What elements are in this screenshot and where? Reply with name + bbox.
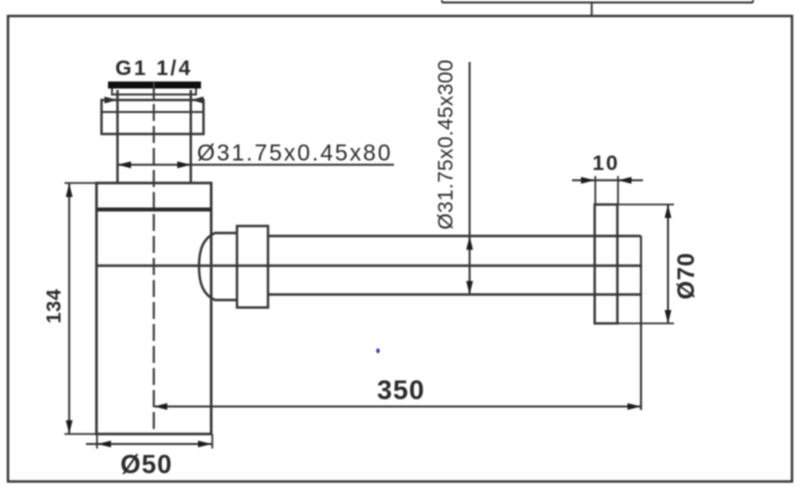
body height ext line bottom [65, 433, 98, 435]
dim 70 bottom arrow [665, 310, 672, 323]
dimension line 134 [68, 184, 70, 434]
svg-text:Ø50: Ø50 [120, 449, 172, 479]
inlet pipe left wall [116, 90, 118, 183]
title block bottom line [442, 2, 753, 4]
svg-text:Ø31.75x0.45x80: Ø31.75x0.45x80 [197, 140, 392, 166]
dim 10 left arrow [581, 177, 595, 184]
pipe dia dimension line vertical [469, 62, 471, 295]
inlet cap thick black bar [108, 82, 201, 89]
title block left divider [441, 0, 443, 3]
dim 350 left arrow [154, 403, 168, 410]
outlet pipe top line [268, 235, 641, 238]
washer line under cap [111, 93, 197, 95]
compression nut mid line [102, 111, 204, 113]
thread dim left arrow [105, 97, 118, 104]
outlet elbow cup [199, 233, 237, 300]
vertical centerline [153, 82, 155, 434]
flange thickness ext line left [594, 176, 596, 205]
dim 350 right arrow [628, 403, 642, 410]
body dia ext line left [96, 434, 98, 449]
inlet pipe right wall [190, 90, 192, 183]
body dia ext line right [211, 434, 213, 449]
body joint thick line [97, 208, 213, 212]
inlet dim left arrow [118, 161, 132, 168]
inlet pipe diameter dimension line [118, 164, 395, 166]
outlet nut [237, 226, 268, 308]
thread dim right arrow [191, 97, 204, 104]
svg-text:134: 134 [44, 288, 66, 323]
svg-text:G1 1/4: G1 1/4 [115, 57, 192, 80]
outlet pipe end cap and 350 extension line [640, 236, 642, 410]
dimension line 10 [572, 179, 643, 181]
inlet dim right arrow [177, 161, 191, 168]
dim 50 right arrow [198, 441, 212, 448]
wall flange outline [595, 205, 618, 324]
dim 50 left arrow [98, 441, 112, 448]
svg-text:10: 10 [592, 152, 619, 175]
washer right tick [195, 89, 197, 95]
trap body outline [97, 183, 212, 434]
horizontal centerline [97, 264, 642, 267]
dim 70 top arrow [665, 205, 672, 219]
flange thickness ext line right [617, 176, 619, 205]
flange dia ext line top [617, 204, 674, 206]
pipe dia top arrow [466, 236, 473, 250]
washer left tick [111, 89, 113, 95]
dim 134 bottom arrow [66, 420, 73, 434]
compression nut outline [102, 100, 204, 134]
dimension line Ø70 [667, 205, 669, 324]
outlet pipe bottom line [268, 293, 641, 296]
svg-text:350: 350 [377, 375, 425, 405]
flange dia ext line bottom [617, 322, 674, 324]
title block right divider [752, 0, 754, 3]
dimension line Ø50 [86, 443, 213, 445]
svg-text:Ø31.75x0.45x300: Ø31.75x0.45x300 [435, 59, 458, 229]
dimension line 350 [154, 406, 641, 408]
body height ext line top [65, 182, 97, 184]
thread dimension line G1 1/4 [104, 99, 204, 101]
blue speck artifact [376, 348, 380, 353]
dim 134 top arrow [66, 184, 73, 198]
svg-text:Ø70: Ø70 [673, 253, 700, 300]
dim 10 right arrow [618, 177, 632, 184]
pipe dia bottom arrow [466, 281, 473, 295]
title block center divider [591, 3, 593, 17]
